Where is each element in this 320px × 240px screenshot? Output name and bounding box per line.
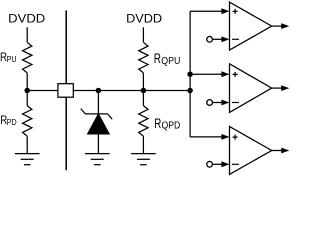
svg-text:DVDD: DVDD [8, 12, 45, 26]
wire: U1 output [272, 25, 282, 27]
wire: RPU to RPD [26, 73, 28, 106]
node: bus junction at net [187, 88, 193, 94]
svg-text:QPD: QPD [162, 121, 181, 132]
wire: zener drop [97, 91, 99, 114]
label RQPU [154, 50, 181, 67]
zener diode cathode bar [81, 109, 113, 120]
svg-text:DVDD: DVDD [126, 12, 162, 26]
wire: comparator input bus [189, 11, 191, 137]
resistor RPU [23, 42, 32, 73]
label RQPD [154, 115, 180, 132]
svg-text:R: R [154, 50, 161, 66]
wire: RQPD to ground [142, 136, 144, 153]
ground (right resistor) [131, 154, 156, 165]
label RPU [0, 50, 17, 64]
comparator U3 [207, 127, 290, 175]
wire: RQPU to RQPD [142, 73, 144, 106]
node: zener junction [96, 88, 102, 94]
svg-text:PU: PU [7, 54, 17, 64]
wire: right DVDD drop [142, 27, 144, 42]
wire: U2 + input [190, 73, 223, 75]
wire: U1 - input [213, 38, 223, 40]
ground (left) [15, 154, 40, 165]
resistor RPD [23, 106, 32, 137]
node: right resistor junction [141, 88, 147, 94]
resistor RQPD [139, 106, 148, 137]
resistor RQPU [139, 42, 148, 73]
wire: main horizontal net [27, 90, 190, 92]
comparator U2 [207, 64, 290, 113]
wire: DUT pin vertical line [65, 10, 67, 170]
label RPD [0, 113, 17, 127]
wire: U3 + input [190, 136, 223, 138]
node: bus junction at U2 + [187, 71, 193, 77]
node: left resistor junction [24, 88, 30, 94]
zener diode anode triangle [88, 114, 110, 134]
wire: RPD to ground [26, 136, 28, 153]
wire: U2 - input [213, 102, 223, 104]
svg-text:QPU: QPU [161, 56, 180, 67]
svg-text:R: R [154, 115, 161, 131]
comparator U1 [207, 2, 290, 50]
wire: U3 output [272, 150, 282, 152]
wire: zener anode to ground [97, 134, 99, 154]
ground (zener) [85, 154, 110, 165]
svg-text:PD: PD [7, 117, 17, 127]
I/O pad box [58, 84, 73, 98]
wire: U3 - input [213, 163, 223, 165]
wire: left DVDD drop [26, 27, 28, 42]
wire: U1 + input [190, 10, 223, 12]
wire: U2 output [272, 87, 282, 89]
